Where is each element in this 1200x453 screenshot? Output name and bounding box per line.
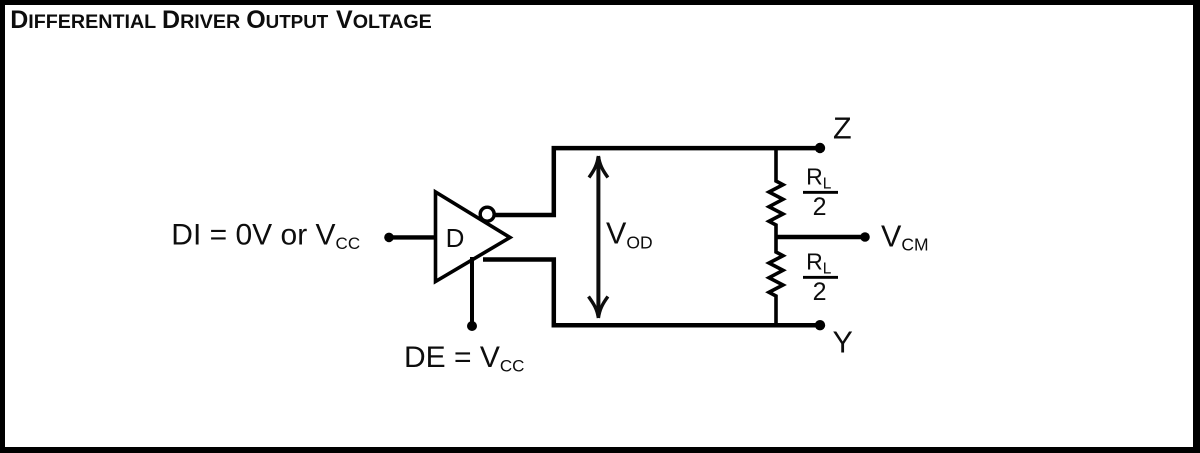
resistor RL/2 upper (zigzag) and lower, with connecting line	[769, 148, 783, 237]
node VCM terminal dot	[860, 232, 870, 242]
svg-text:2: 2	[813, 193, 827, 221]
junction dot DE	[467, 321, 477, 331]
svg-text:RL: RL	[806, 249, 832, 278]
value label RL/2 lower	[803, 249, 838, 307]
svg-text:Z: Z	[833, 112, 852, 146]
svg-text:RL: RL	[806, 164, 832, 193]
node Z terminal dot	[815, 143, 825, 153]
junction dot DI input	[384, 233, 394, 243]
svg-text:DIFFERENTIALDRIVEROUTPUTVOLTAG: DIFFERENTIALDRIVEROUTPUTVOLTAGE	[10, 6, 432, 34]
node Y terminal dot	[815, 320, 825, 330]
VOD measurement arrow	[589, 156, 608, 318]
svg-text:VCM: VCM	[881, 219, 929, 254]
driver U1 triangle	[436, 192, 511, 282]
svg-text:VOD: VOD	[606, 217, 653, 253]
wire VCM tap	[776, 235, 865, 239]
svg-text:D: D	[446, 223, 465, 253]
svg-text:Y: Y	[833, 326, 853, 360]
wire DE enable	[470, 257, 474, 326]
resistor RL/2 lower (zigzag)	[769, 237, 783, 325]
svg-text:DI = 0V or VCC: DI = 0V or VCC	[171, 219, 360, 253]
inverting bubble on Z output	[480, 207, 494, 221]
wire Y output: driver lower edge to bottom rail to node Y	[483, 260, 820, 326]
svg-text:2: 2	[813, 278, 827, 306]
value label RL/2 upper	[803, 164, 838, 222]
wire DI input	[389, 235, 437, 239]
wire Z output: bubble to top rail to node Z	[494, 148, 820, 215]
svg-text:DE = VCC: DE = VCC	[404, 341, 524, 375]
